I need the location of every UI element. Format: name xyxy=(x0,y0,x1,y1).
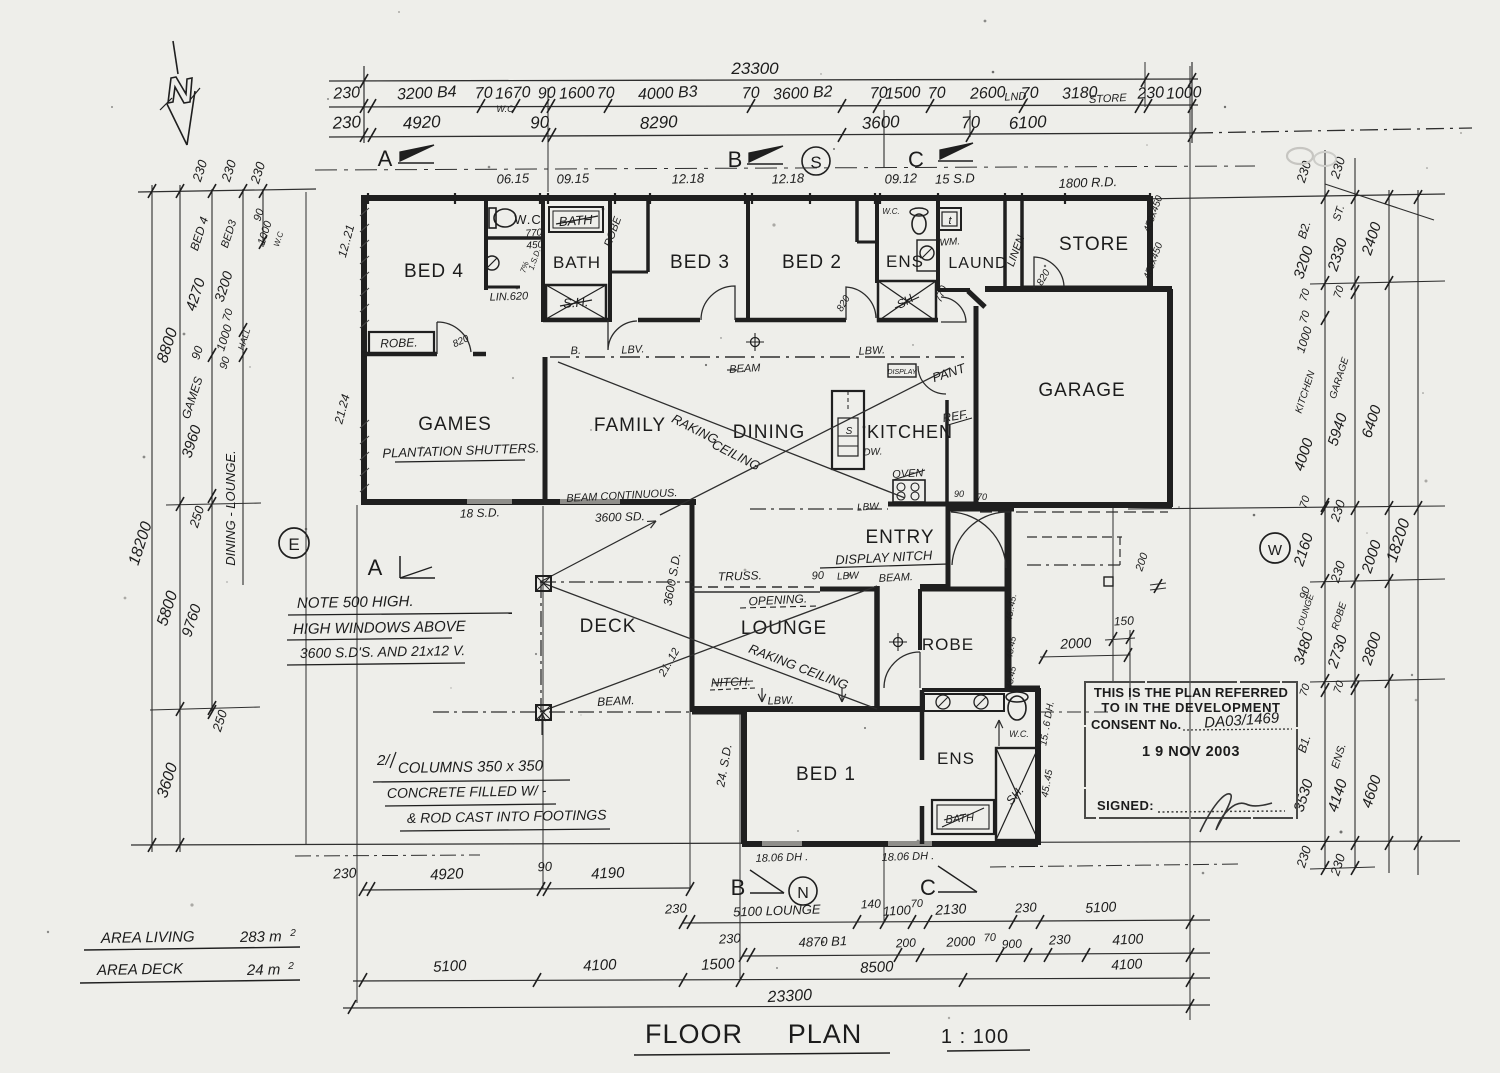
svg-text:24 m: 24 m xyxy=(246,961,281,979)
svg-text:8500: 8500 xyxy=(860,958,895,977)
svg-text:BED 3: BED 3 xyxy=(670,252,730,273)
svg-text:23300: 23300 xyxy=(766,987,812,1006)
svg-text:4920: 4920 xyxy=(430,865,465,884)
svg-text:WM.: WM. xyxy=(939,236,960,248)
svg-text:770: 770 xyxy=(525,227,543,239)
svg-text:12.18: 12.18 xyxy=(771,170,805,186)
svg-text:4100: 4100 xyxy=(1112,930,1144,948)
svg-text:TRUSS.: TRUSS. xyxy=(718,568,762,584)
svg-text:4100: 4100 xyxy=(1111,955,1143,973)
svg-text:09.12: 09.12 xyxy=(884,170,918,186)
svg-text:150: 150 xyxy=(1113,613,1134,628)
svg-text:LBW: LBW xyxy=(857,501,881,513)
svg-text:140: 140 xyxy=(860,896,881,911)
svg-text:230: 230 xyxy=(1136,84,1165,102)
svg-text:230: 230 xyxy=(1014,899,1038,915)
svg-text:70: 70 xyxy=(977,492,987,502)
svg-text:70: 70 xyxy=(983,932,997,945)
svg-text:15 S.D: 15 S.D xyxy=(935,170,975,186)
svg-text:3200 B4: 3200 B4 xyxy=(397,83,458,103)
svg-text:S: S xyxy=(810,153,821,172)
svg-text:18 S.D.: 18 S.D. xyxy=(460,505,500,520)
svg-text:W.C: W.C xyxy=(514,212,542,227)
svg-text:GARAGE: GARAGE xyxy=(1038,380,1125,401)
svg-text:230: 230 xyxy=(664,900,688,916)
svg-text:LBW.: LBW. xyxy=(858,344,885,357)
svg-text:4870 B1: 4870 B1 xyxy=(798,933,847,950)
svg-text:BED 4: BED 4 xyxy=(404,261,464,282)
svg-text:BEAM.: BEAM. xyxy=(597,693,635,709)
svg-text:ENS: ENS xyxy=(937,749,975,768)
svg-text:18.06 DH .: 18.06 DH . xyxy=(881,850,934,864)
svg-text:1500: 1500 xyxy=(701,955,736,974)
svg-text:4100: 4100 xyxy=(583,956,618,975)
svg-text:09.15: 09.15 xyxy=(556,170,590,186)
svg-text:THIS IS THE PLAN REFERRED: THIS IS THE PLAN REFERRED xyxy=(1094,685,1288,700)
svg-text:CONSENT No.: CONSENT No. xyxy=(1091,717,1181,732)
svg-text:1500: 1500 xyxy=(885,84,922,103)
svg-text:S: S xyxy=(846,426,853,437)
svg-text:70: 70 xyxy=(910,898,924,911)
svg-text:5100: 5100 xyxy=(433,957,468,976)
svg-text:C: C xyxy=(908,147,924,172)
svg-text:1 : 100: 1 : 100 xyxy=(941,1026,1009,1048)
svg-text:2130: 2130 xyxy=(934,900,967,918)
svg-text:STORE: STORE xyxy=(1059,234,1129,255)
svg-text:230: 230 xyxy=(332,84,361,102)
svg-text:1000: 1000 xyxy=(1166,84,1203,103)
svg-text:KITCHEN: KITCHEN xyxy=(867,422,953,442)
svg-text:3600 SD.: 3600 SD. xyxy=(595,509,646,525)
svg-text:BED 2: BED 2 xyxy=(782,252,842,273)
svg-text:1800 R.D.: 1800 R.D. xyxy=(1058,174,1117,191)
svg-text:NOTE 500 HIGH.: NOTE 500 HIGH. xyxy=(297,593,414,612)
svg-text:FAMILY: FAMILY xyxy=(594,415,666,436)
svg-text:70: 70 xyxy=(961,112,981,132)
svg-text:PLAN: PLAN xyxy=(788,1019,863,1049)
svg-text:DECK: DECK xyxy=(580,616,637,637)
svg-text:ROBE: ROBE xyxy=(922,635,974,654)
svg-text:200: 200 xyxy=(894,935,916,950)
svg-text:C: C xyxy=(920,875,936,900)
svg-text:CONCRETE FILLED W/ -: CONCRETE FILLED W/ - xyxy=(387,782,547,801)
svg-text:3600 S.D'S. AND 21x12 V.: 3600 S.D'S. AND 21x12 V. xyxy=(300,642,466,661)
svg-text:6100: 6100 xyxy=(1008,112,1047,133)
svg-text:DINING: DINING xyxy=(733,422,806,443)
svg-text:06.15: 06.15 xyxy=(496,170,530,186)
svg-text:230: 230 xyxy=(332,864,357,881)
svg-text:N: N xyxy=(797,885,809,902)
svg-text:90: 90 xyxy=(954,489,964,499)
svg-text:283 m: 283 m xyxy=(239,928,282,946)
svg-text:90: 90 xyxy=(537,85,556,103)
svg-text:W: W xyxy=(1268,542,1283,559)
svg-text:AREA LIVING: AREA LIVING xyxy=(100,928,195,947)
svg-text:70: 70 xyxy=(927,85,946,103)
svg-text:5100: 5100 xyxy=(1085,898,1117,916)
svg-text:230: 230 xyxy=(718,930,742,946)
svg-text:LBW.: LBW. xyxy=(767,695,794,708)
svg-text:A: A xyxy=(368,555,383,580)
svg-text:3600: 3600 xyxy=(861,112,900,133)
svg-text:4920: 4920 xyxy=(402,112,441,133)
svg-text:1 9 NOV 2003: 1 9 NOV 2003 xyxy=(1142,744,1240,760)
svg-text:LIN.620: LIN.620 xyxy=(489,290,529,303)
svg-text:AREA DECK: AREA DECK xyxy=(96,960,184,979)
svg-text:BED 1: BED 1 xyxy=(796,764,856,785)
svg-text:B.: B. xyxy=(570,345,581,358)
svg-text:18.06 DH .: 18.06 DH . xyxy=(755,851,808,865)
svg-text:4190: 4190 xyxy=(591,864,626,883)
svg-text:B: B xyxy=(731,875,746,900)
svg-text:LAUND: LAUND xyxy=(948,255,1007,272)
svg-text:23300: 23300 xyxy=(730,59,779,78)
svg-text:90: 90 xyxy=(811,570,825,583)
svg-text:90: 90 xyxy=(530,112,550,132)
svg-text:4000 B3: 4000 B3 xyxy=(638,83,699,103)
svg-text:ENS: ENS xyxy=(886,252,924,271)
svg-text:900: 900 xyxy=(1001,936,1022,951)
svg-text:BATH: BATH xyxy=(553,253,601,272)
svg-text:230: 230 xyxy=(1048,931,1072,947)
svg-text:90: 90 xyxy=(537,859,553,875)
svg-text:DISPLAY: DISPLAY xyxy=(887,369,917,376)
svg-text:3600 B2: 3600 B2 xyxy=(773,83,834,103)
svg-text:2: 2 xyxy=(289,928,296,939)
svg-text:12.18: 12.18 xyxy=(671,170,705,186)
svg-text:2: 2 xyxy=(287,961,294,972)
svg-text:E: E xyxy=(288,535,299,554)
svg-text:1600: 1600 xyxy=(559,84,596,103)
svg-text:5100 LOUNGE: 5100 LOUNGE xyxy=(733,901,821,919)
svg-text:HIGH WINDOWS ABOVE: HIGH WINDOWS ABOVE xyxy=(293,618,467,638)
svg-text:2600: 2600 xyxy=(969,84,1007,103)
svg-text:LBV.: LBV. xyxy=(621,343,645,356)
svg-text:BEAM: BEAM xyxy=(729,362,762,376)
svg-text:2000: 2000 xyxy=(945,933,976,950)
svg-text:STORE: STORE xyxy=(1089,92,1128,106)
svg-text:1670: 1670 xyxy=(495,84,532,103)
svg-text:A: A xyxy=(378,146,393,171)
svg-text:DW.: DW. xyxy=(863,447,883,459)
svg-text:ROBE.: ROBE. xyxy=(380,335,418,350)
svg-text:2000: 2000 xyxy=(1059,634,1092,652)
svg-text:DINING - LOUNGE.: DINING - LOUNGE. xyxy=(223,450,238,566)
svg-text:LBW: LBW xyxy=(837,570,861,582)
svg-text:FLOOR: FLOOR xyxy=(645,1019,743,1049)
svg-text:230: 230 xyxy=(331,112,362,133)
svg-text:COLUMNS 350 x 350: COLUMNS 350 x 350 xyxy=(398,757,544,777)
svg-text:2/: 2/ xyxy=(376,752,391,769)
svg-text:70: 70 xyxy=(741,85,760,103)
svg-text:GAMES: GAMES xyxy=(418,414,492,435)
svg-text:SIGNED:: SIGNED: xyxy=(1097,798,1154,813)
svg-text:8290: 8290 xyxy=(639,112,678,133)
svg-text:W.C.: W.C. xyxy=(882,207,899,216)
svg-text:ENTRY: ENTRY xyxy=(865,527,934,548)
svg-text:BEAM.: BEAM. xyxy=(878,571,913,585)
svg-text:W.C.: W.C. xyxy=(1009,729,1029,739)
